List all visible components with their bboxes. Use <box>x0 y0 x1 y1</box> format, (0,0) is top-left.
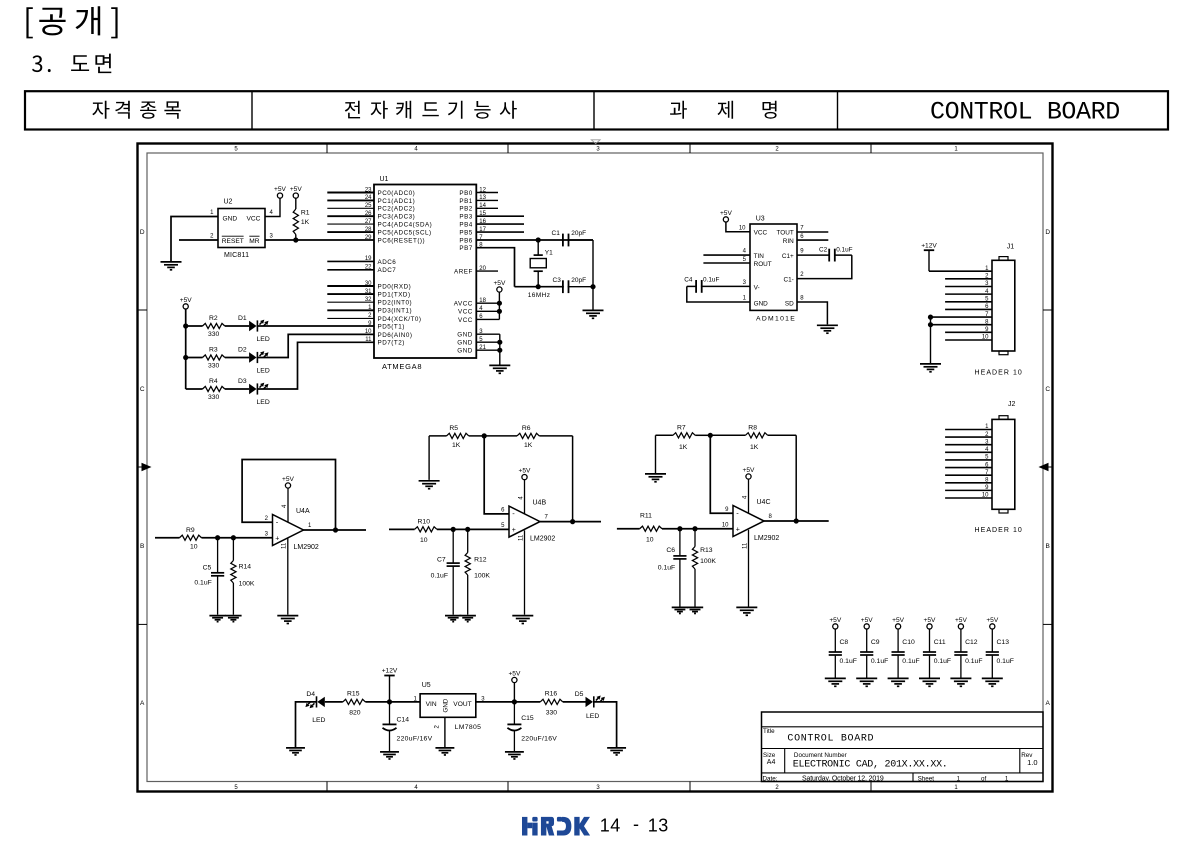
title block row line 2 <box>762 748 1044 750</box>
svg-text:R5: R5 <box>449 425 458 432</box>
wire D3 to U1 PD7 <box>257 342 374 389</box>
power +5V C9 rail <box>861 617 874 629</box>
ground below R13 <box>687 607 703 613</box>
svg-text:0.1uF: 0.1uF <box>965 658 982 665</box>
capacitor C3 <box>563 280 569 293</box>
wire U1 GND stub pin 5 <box>476 341 500 343</box>
resistor R12 <box>465 529 470 614</box>
svg-text:5: 5 <box>501 523 505 529</box>
svg-text:1: 1 <box>743 296 747 302</box>
svg-text:+5V: +5V <box>290 186 303 193</box>
svg-text:+12V: +12V <box>382 668 398 675</box>
crystal Y1 <box>530 240 546 287</box>
capacitor C7 <box>447 529 460 614</box>
svg-text:+: + <box>736 526 740 533</box>
U4B pin 11 to ground <box>524 530 526 614</box>
svg-text:+5V: +5V <box>282 476 295 483</box>
wire U1 PC5(ADC5(SCL) stub <box>327 231 374 233</box>
wire J1 pin4 stub <box>945 293 992 295</box>
svg-text:U4C: U4C <box>757 499 771 506</box>
J1 +12V drop <box>928 250 930 271</box>
ground below C11 <box>919 678 940 686</box>
svg-text:10: 10 <box>739 226 746 232</box>
svg-text:U3: U3 <box>756 216 765 223</box>
table divider 2 <box>593 91 595 129</box>
power +5V C8 rail <box>829 617 842 629</box>
svg-text:GND: GND <box>443 698 450 712</box>
resistor R2 <box>186 323 249 328</box>
svg-text:13: 13 <box>479 195 486 201</box>
ground below C15 <box>505 752 524 759</box>
svg-text:R6: R6 <box>522 425 531 432</box>
wire J1 pin1 to +12V <box>929 270 992 272</box>
svg-text:12: 12 <box>479 187 486 193</box>
svg-text:20pF: 20pF <box>571 277 586 284</box>
power +5V C11 rail <box>924 617 937 629</box>
junction J1 pin8 node <box>928 322 933 327</box>
ground J1 <box>920 364 941 372</box>
svg-text:1.0: 1.0 <box>1027 758 1037 767</box>
svg-text:C: C <box>1045 386 1050 393</box>
svg-text:0.1uF: 0.1uF <box>871 658 888 665</box>
svg-text:C5: C5 <box>203 565 212 572</box>
svg-text:AVCC: AVCC <box>454 301 473 308</box>
svg-text:10: 10 <box>420 537 428 544</box>
wire U1 VCC stub <box>476 318 499 320</box>
svg-text:14: 14 <box>600 815 621 835</box>
svg-text:D1: D1 <box>238 315 247 322</box>
svg-text:B: B <box>1046 543 1050 550</box>
svg-text:GND: GND <box>223 215 238 222</box>
ground below C14 <box>380 752 399 759</box>
title block divider docnum/rev <box>1019 749 1021 773</box>
svg-text:13: 13 <box>648 815 669 835</box>
svg-text:C7: C7 <box>437 556 446 563</box>
wire U1 VCC stub <box>476 310 499 312</box>
junction R12 node <box>465 527 470 532</box>
svg-text:30: 30 <box>365 281 372 287</box>
svg-text:1: 1 <box>308 523 312 529</box>
svg-text:-: - <box>512 509 515 518</box>
junction VCC rail <box>497 309 502 314</box>
svg-text:RIN: RIN <box>783 238 794 245</box>
wire R7 left to ground <box>655 435 657 473</box>
svg-text:6: 6 <box>800 234 804 240</box>
power +5V C12 rail <box>955 617 968 629</box>
junction XTAL1 node <box>536 237 541 242</box>
wire U1 PC4(ADC4(SDA) stub <box>327 223 374 225</box>
wire crystal bottom row <box>515 286 564 288</box>
svg-text:+5V: +5V <box>274 186 287 193</box>
svg-text:C10: C10 <box>902 639 915 646</box>
wire PB7 to crystal <box>476 248 514 287</box>
svg-text:7: 7 <box>800 226 804 232</box>
wire U1 power rail <box>498 292 500 319</box>
svg-text:+5V: +5V <box>924 617 937 624</box>
svg-text:100K: 100K <box>239 581 255 588</box>
power +5V above R1 <box>290 186 303 198</box>
wire U4B output <box>540 521 601 523</box>
capacitor C12 <box>954 629 967 678</box>
frame zone divider right <box>1043 466 1053 468</box>
svg-text:19: 19 <box>365 256 372 262</box>
svg-text:+5V: +5V <box>493 280 506 287</box>
svg-text:MIC811: MIC811 <box>224 252 249 259</box>
junction C5 node <box>215 535 220 540</box>
svg-text:7: 7 <box>545 514 549 520</box>
frame zone divider bottom <box>689 782 691 792</box>
svg-text:22: 22 <box>365 265 372 271</box>
svg-text:20pF: 20pF <box>571 230 586 237</box>
wire U1 PC3(ADC3) stub <box>327 215 374 217</box>
svg-text:Date:: Date: <box>763 776 778 783</box>
svg-text:9: 9 <box>725 507 729 513</box>
svg-text:A4: A4 <box>767 759 776 766</box>
wire U1 ADC6 stub <box>327 260 374 262</box>
svg-text:+5V: +5V <box>720 210 733 217</box>
resistor R1 <box>293 198 298 240</box>
svg-text:4: 4 <box>742 495 748 499</box>
U5 GND pin wire <box>444 717 446 747</box>
resistor R13 <box>692 529 697 607</box>
svg-text:+: + <box>275 535 279 542</box>
wire J2 pin1 stub <box>945 429 992 431</box>
frame zone divider bottom <box>326 782 328 792</box>
svg-text:330: 330 <box>546 710 558 717</box>
junction R7/R8 node <box>708 433 713 438</box>
svg-text:25: 25 <box>365 203 372 209</box>
svg-text:R2: R2 <box>209 315 218 322</box>
svg-text:21: 21 <box>479 345 486 351</box>
wire U1 AREF stub <box>476 270 498 272</box>
svg-text:+5V: +5V <box>519 468 532 475</box>
svg-text:4: 4 <box>282 504 288 508</box>
wire D2 to U1 PD6 <box>257 334 374 357</box>
wire U3 RIN stub <box>797 239 828 241</box>
svg-text:GND: GND <box>457 340 473 347</box>
IC U2 MIC811 body <box>218 209 265 248</box>
svg-text:Document Number: Document Number <box>794 752 847 759</box>
svg-text:Sheet: Sheet <box>918 776 935 783</box>
svg-text:+12V: +12V <box>921 242 937 249</box>
junction R1/RESET <box>293 237 298 242</box>
frame zone divider top <box>870 144 872 154</box>
svg-text:PC1(ADC1): PC1(ADC1) <box>378 198 416 205</box>
svg-text:+5V: +5V <box>955 617 968 624</box>
svg-text:220uF/16V: 220uF/16V <box>521 735 557 742</box>
svg-text:24: 24 <box>365 195 372 201</box>
junction +5V node <box>512 699 517 704</box>
input wire to U4C <box>617 528 640 530</box>
svg-text:R8: R8 <box>748 424 757 431</box>
svg-text:D5: D5 <box>575 691 584 698</box>
svg-text:PD0(RXD): PD0(RXD) <box>378 283 412 290</box>
table divider 3 <box>837 91 839 129</box>
table cell 전자캐드기능사 <box>345 101 517 119</box>
svg-text:1: 1 <box>954 785 958 791</box>
svg-text:+: + <box>512 527 516 534</box>
svg-text:R11: R11 <box>640 513 652 520</box>
svg-text:100K: 100K <box>474 572 490 579</box>
svg-text:VCC: VCC <box>458 317 473 324</box>
svg-text:PD5(T1): PD5(T1) <box>378 323 405 330</box>
svg-text:23: 23 <box>365 187 372 193</box>
resistor R5 <box>429 433 484 438</box>
power +5V supply output <box>508 670 521 682</box>
svg-text:PB6: PB6 <box>459 237 472 244</box>
frame zone divider left <box>138 623 148 625</box>
svg-text:16MHz: 16MHz <box>528 292 551 299</box>
ground below C5 <box>209 616 225 622</box>
ground crystal <box>583 310 604 318</box>
heading [공개] <box>26 6 117 38</box>
wire J1 pin7 <box>931 316 993 318</box>
capacitor C13 <box>986 629 999 678</box>
IC U1 ATMEGA8 body <box>374 185 476 359</box>
svg-text:8: 8 <box>800 296 804 302</box>
wire U1 PC1(ADC1) stub <box>327 199 374 201</box>
svg-text:3: 3 <box>596 146 600 152</box>
svg-text:PD4(XCK/T0): PD4(XCK/T0) <box>378 316 422 323</box>
input wire to U4A <box>155 537 180 539</box>
frame zone divider left <box>138 466 148 468</box>
wire C4 to GND pin <box>687 286 750 302</box>
wire U3 ROUT stub <box>703 262 750 264</box>
svg-text:U5: U5 <box>422 682 431 689</box>
wire U1 PC0(ADC0) stub <box>327 192 374 194</box>
ground below R12 <box>460 616 476 622</box>
svg-text:PC2(ADC2): PC2(ADC2) <box>378 206 416 213</box>
svg-text:R9: R9 <box>186 527 195 534</box>
wire J2 pin5 stub <box>945 459 992 461</box>
svg-text:U4B: U4B <box>533 499 547 506</box>
svg-text:LED: LED <box>257 399 270 406</box>
svg-text:10: 10 <box>646 536 654 543</box>
svg-text:GND: GND <box>754 300 769 307</box>
svg-text:2: 2 <box>775 785 779 791</box>
svg-text:PD1(TXD): PD1(TXD) <box>378 292 411 299</box>
svg-text:R1: R1 <box>301 210 310 217</box>
wire U1 PD2(INT0) stub <box>327 301 374 303</box>
svg-text:ADC6: ADC6 <box>378 259 397 266</box>
U4A V+ pin 4 <box>287 488 289 522</box>
svg-text:4: 4 <box>414 785 418 791</box>
svg-text:-: - <box>633 814 639 834</box>
junction U4C out node <box>794 518 799 523</box>
svg-text:2: 2 <box>210 234 214 240</box>
wire J1 pin5 stub <box>945 301 992 303</box>
svg-text:HEADER 10: HEADER 10 <box>975 369 1023 376</box>
wire U1 GND stub pin 21 <box>476 349 500 351</box>
svg-text:+5V: +5V <box>861 617 874 624</box>
table divider 1 <box>251 91 253 129</box>
svg-text:330: 330 <box>208 363 220 370</box>
svg-text:PC5(ADC5(SCL): PC5(ADC5(SCL) <box>378 230 432 237</box>
power +5V C10 rail <box>892 617 905 629</box>
svg-text:330: 330 <box>208 331 220 338</box>
svg-text:0.1uF: 0.1uF <box>658 564 675 571</box>
ground below C8 <box>825 678 846 686</box>
junction R5/R6 node <box>482 433 487 438</box>
capacitor C8 <box>829 629 842 678</box>
frame inner border <box>147 153 1043 782</box>
svg-text:10: 10 <box>190 543 198 550</box>
resistor R16 <box>540 699 563 704</box>
svg-text:26: 26 <box>365 211 372 217</box>
frame zone divider right <box>1043 623 1053 625</box>
svg-text:MR: MR <box>249 238 259 245</box>
resistor R3 <box>186 355 249 360</box>
resistor R11 <box>640 526 733 531</box>
svg-text:5: 5 <box>743 257 747 263</box>
wire J1 pin10 stub <box>945 339 992 341</box>
U4C V+ pin 4 <box>748 479 750 513</box>
svg-text:+5V: +5V <box>892 617 905 624</box>
svg-text:GND: GND <box>457 332 473 339</box>
svg-text:R7: R7 <box>677 424 686 431</box>
LED D3 <box>249 383 268 395</box>
svg-text:0.1uF: 0.1uF <box>431 572 448 579</box>
capacitor C4 <box>687 280 750 293</box>
resistor R8 <box>710 433 796 438</box>
regulator U5 LM7805 body <box>420 694 476 718</box>
svg-text:LM2902: LM2902 <box>294 544 319 551</box>
svg-text:PC0(ADC0): PC0(ADC0) <box>378 190 416 197</box>
wire U1 ground rail <box>499 334 501 364</box>
wire U4C output <box>764 520 829 522</box>
heading 3. 도면 <box>32 54 111 74</box>
svg-text:4: 4 <box>270 210 274 216</box>
wire U1 PB4 stub <box>476 223 524 225</box>
junction LED rail row2 <box>183 355 188 360</box>
svg-text:0.1uF: 0.1uF <box>703 277 719 284</box>
capacitor C14 (electrolytic) <box>383 702 397 751</box>
wire J2 pin2 stub <box>945 436 992 438</box>
frame outer border <box>138 144 1053 792</box>
power +5V U4C V+ <box>743 467 756 479</box>
wire J2 pin4 stub <box>945 451 992 453</box>
svg-text:1K: 1K <box>750 444 759 451</box>
svg-text:C1: C1 <box>552 230 561 237</box>
U4C pin 11 to ground <box>748 530 750 607</box>
wire D5 cathode to ground <box>594 702 617 747</box>
svg-text:TIN: TIN <box>754 253 765 260</box>
wire U2 pin4 VCC to +5V <box>265 198 280 216</box>
svg-text:+5V: +5V <box>829 617 842 624</box>
ground U4B pin11 <box>512 616 533 624</box>
LED D1 <box>249 320 268 332</box>
svg-text:D: D <box>140 229 145 236</box>
frame zone divider top <box>507 144 509 154</box>
svg-text:16: 16 <box>479 219 486 225</box>
svg-text:0.1uF: 0.1uF <box>902 658 919 665</box>
svg-text:330: 330 <box>208 394 220 401</box>
wire C2 to C1- pin <box>797 255 852 279</box>
wire J2 pin10 stub <box>945 497 992 499</box>
svg-text:1K: 1K <box>524 442 533 449</box>
svg-text:R16: R16 <box>545 690 558 697</box>
svg-text:TOUT: TOUT <box>777 230 794 237</box>
wire U4A feedback loop <box>242 460 335 531</box>
ground below U1 <box>489 365 510 373</box>
svg-text:R4: R4 <box>209 378 218 385</box>
svg-text:2: 2 <box>800 272 804 278</box>
capacitor C10 <box>892 629 905 678</box>
svg-text:C9: C9 <box>871 639 880 646</box>
wire J1 pin9 stub <box>945 331 992 333</box>
svg-text:C14: C14 <box>397 717 410 724</box>
wire U1 PB5 stub <box>476 231 524 233</box>
svg-text:9: 9 <box>800 249 804 255</box>
frame center arrow left <box>142 463 152 471</box>
wire U1 PD0(RXD) stub <box>327 285 374 287</box>
junction U1 gnd rail a <box>497 340 502 345</box>
svg-text:5: 5 <box>234 146 238 152</box>
HRDK logo <box>522 817 590 836</box>
svg-text:0.1uF: 0.1uF <box>934 658 951 665</box>
wire U1 PB1 stub <box>476 199 498 201</box>
svg-text:4: 4 <box>414 146 418 152</box>
header table frame <box>25 91 1168 129</box>
U4A pin 11 to ground <box>287 538 289 615</box>
svg-text:PB1: PB1 <box>459 198 472 205</box>
svg-text:0.1uF: 0.1uF <box>840 658 857 665</box>
svg-text:PB3: PB3 <box>459 214 472 221</box>
capacitor C5 <box>211 538 224 615</box>
svg-text:-: - <box>276 518 279 527</box>
svg-text:V-: V- <box>754 284 760 291</box>
svg-text:3: 3 <box>596 785 600 791</box>
resistor R15 <box>343 699 366 704</box>
ground below C7 <box>445 616 461 622</box>
svg-text:Y1: Y1 <box>545 249 553 256</box>
wire U2 pin2 MR stub <box>179 239 218 241</box>
title block divider size/docnum <box>784 749 786 773</box>
svg-text:LM7805: LM7805 <box>455 724 482 731</box>
frame zone divider top <box>689 144 691 154</box>
svg-text:PD2(INT0): PD2(INT0) <box>378 300 413 307</box>
svg-text:A: A <box>1046 700 1051 707</box>
resistor R14 <box>231 538 236 615</box>
LED D5 <box>586 696 605 708</box>
svg-text:1: 1 <box>954 146 958 152</box>
resistor R7 <box>656 433 711 438</box>
capacitor C9 <box>860 629 873 678</box>
power +12V supply input <box>382 668 398 676</box>
capacitor C2 <box>797 249 852 262</box>
wire U1 GND stub pin 3 <box>476 333 500 335</box>
svg-text:GND: GND <box>457 348 473 355</box>
svg-text:PD3(INT1): PD3(INT1) <box>378 308 413 315</box>
ground U4A pin11 <box>277 616 298 624</box>
junction crystal gnd node <box>590 284 595 289</box>
svg-text:-: - <box>736 509 739 518</box>
IC U3 ADM101E body <box>750 224 797 310</box>
svg-text:VOUT: VOUT <box>453 701 471 708</box>
power +12V J1 supply <box>921 242 937 250</box>
svg-text:A: A <box>140 700 145 707</box>
frame zone divider left <box>138 309 148 311</box>
wire J2 pin9 stub <box>945 489 992 491</box>
svg-text:D3: D3 <box>238 378 247 385</box>
svg-text:VIN: VIN <box>426 701 437 708</box>
wire U2 pin1 to ground rail <box>171 217 218 262</box>
ground below C6 <box>672 607 688 613</box>
wire U1 PB3 stub <box>476 215 524 217</box>
svg-text:C6: C6 <box>666 547 675 554</box>
svg-text:10: 10 <box>982 335 989 341</box>
svg-text:C13: C13 <box>997 639 1010 646</box>
